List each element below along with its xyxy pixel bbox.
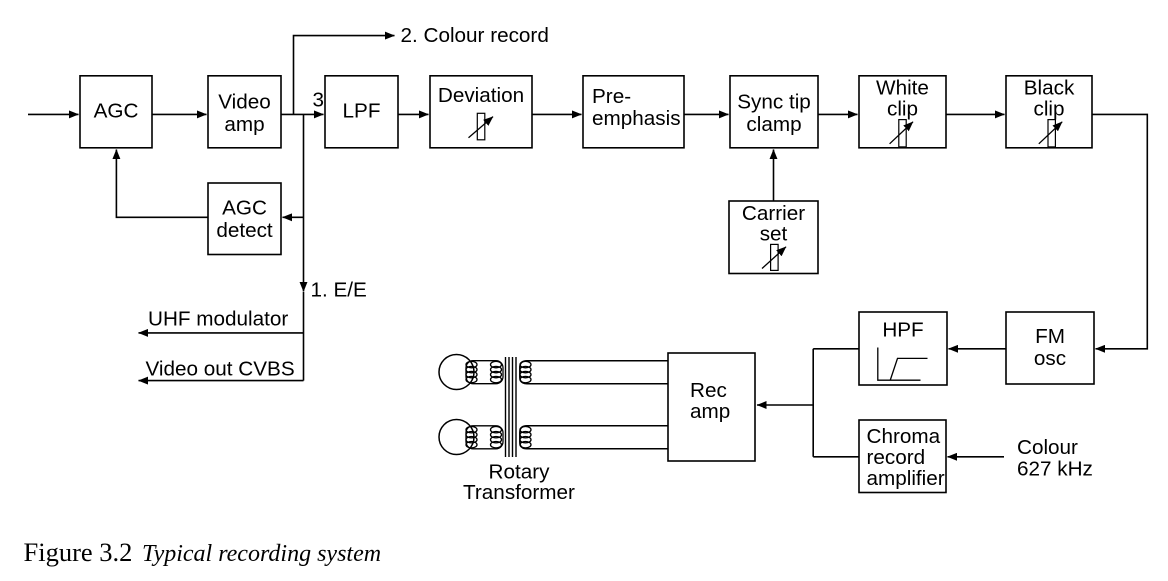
wire Deviation to Pre-emphasis	[532, 113, 582, 115]
wire Video amp to LPF with junctions	[281, 113, 324, 115]
label Colour 627 kHz	[1017, 436, 1093, 481]
variable symbol in Deviation	[469, 113, 494, 140]
label Rotary Transformer	[463, 461, 575, 505]
svg-text:Video: Video	[218, 91, 271, 114]
variable symbol in Carrier set	[762, 244, 786, 270]
rotary transformer head circle top	[439, 355, 474, 390]
block Black clip	[1006, 76, 1092, 148]
wire combining node to Rec amp	[757, 404, 813, 406]
svg-text:Black: Black	[1024, 77, 1075, 100]
svg-text:clamp: clamp	[746, 113, 801, 136]
wire arrow to UHF modulator	[139, 332, 304, 334]
svg-text:White: White	[876, 77, 929, 100]
svg-text:emphasis: emphasis	[592, 107, 681, 130]
svg-text:UHF modulator: UHF modulator	[148, 308, 288, 331]
block Sync tip clamp	[730, 76, 818, 148]
wire Chroma record amplifier to combining node	[813, 456, 859, 458]
svg-text:Figure 3.2Typical recording sy: Figure 3.2Typical recording system	[24, 537, 382, 567]
block LPF	[325, 76, 398, 148]
wire branch up to colour record	[294, 36, 395, 115]
svg-text:amp: amp	[690, 400, 730, 423]
svg-text:clip: clip	[1033, 98, 1064, 121]
svg-text:Chroma: Chroma	[867, 425, 941, 448]
svg-text:3: 3	[313, 89, 325, 112]
svg-text:amp: amp	[224, 113, 264, 136]
svg-text:Video out CVBS: Video out CVBS	[146, 357, 295, 380]
svg-text:Transformer: Transformer	[463, 481, 575, 504]
svg-text:LPF: LPF	[343, 100, 381, 123]
svg-text:AGC: AGC	[222, 197, 267, 220]
rotary transformer bottom-right winding to Rec amp	[520, 426, 668, 449]
wire combining vertical	[812, 349, 814, 457]
wire FM osc to HPF	[949, 348, 1007, 350]
svg-text:clip: clip	[887, 98, 918, 121]
svg-text:AGC: AGC	[94, 100, 139, 123]
svg-text:record: record	[867, 446, 926, 469]
block Pre-emphasis	[583, 76, 684, 148]
block Carrier set	[729, 201, 818, 274]
rotary transformer bottom-left winding	[466, 426, 503, 449]
wire input arrow into AGC	[28, 113, 79, 115]
wire AGC to Video amp	[152, 113, 207, 115]
rotary transformer top-left winding	[466, 361, 503, 384]
block Chroma record amplifier	[859, 420, 946, 493]
svg-text:2. Colour record: 2. Colour record	[401, 24, 549, 47]
wire branch down to E/E tap (arrowhead)	[303, 114, 305, 291]
wire HPF to combining node	[813, 348, 859, 350]
svg-text:627 kHz: 627 kHz	[1017, 458, 1093, 481]
block Video amp	[208, 76, 281, 148]
block AGC detect	[208, 183, 281, 255]
svg-text:set: set	[760, 223, 788, 246]
wire Sync tip clamp to White clip	[818, 113, 858, 115]
wire Black clip to FM osc	[1092, 114, 1147, 348]
block Deviation	[430, 76, 532, 148]
variable symbol in White clip	[890, 120, 913, 147]
wire branch down continued to video out	[303, 292, 305, 381]
svg-text:Pre-: Pre-	[592, 85, 631, 108]
svg-text:detect: detect	[216, 219, 273, 242]
svg-text:HPF: HPF	[882, 319, 923, 342]
rotary transformer core lines	[506, 357, 517, 457]
wire Pre-emphasis to Sync tip clamp	[684, 113, 729, 115]
svg-text:osc: osc	[1034, 347, 1066, 370]
svg-text:amplifier: amplifier	[867, 467, 945, 490]
wire White clip to Black clip	[946, 113, 1005, 115]
svg-text:Colour: Colour	[1017, 436, 1078, 459]
wire AGC detect to AGC	[116, 150, 208, 218]
block Rec amp	[668, 353, 755, 461]
block FM osc	[1006, 312, 1094, 384]
block AGC	[80, 76, 152, 148]
block HPF	[859, 312, 947, 385]
svg-text:Rec: Rec	[690, 379, 727, 402]
rotary transformer top-right winding to Rec amp	[520, 361, 668, 384]
block White clip	[859, 76, 946, 148]
wire tap to AGC detect	[283, 216, 304, 218]
svg-text:1. E/E: 1. E/E	[311, 279, 367, 302]
rotary transformer head circle bottom	[439, 420, 474, 455]
wire arrow to Video out CVBS	[139, 380, 304, 382]
svg-text:Deviation: Deviation	[438, 84, 524, 107]
svg-text:FM: FM	[1035, 325, 1065, 348]
svg-text:Sync tip: Sync tip	[737, 91, 811, 114]
HPF response icon	[878, 348, 928, 381]
wire Colour 627 kHz into Chroma record amplifier	[948, 456, 1005, 458]
wire Carrier set to Sync tip clamp	[773, 150, 775, 202]
variable symbol in Black clip	[1039, 120, 1062, 147]
wire LPF to Deviation	[398, 113, 429, 115]
